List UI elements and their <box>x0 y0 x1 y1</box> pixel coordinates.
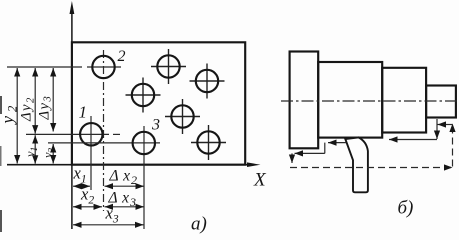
X axis arrowhead <box>247 162 261 167</box>
hole top-middle <box>157 55 179 77</box>
toolpath rapid dashed vertical <box>452 124 454 167</box>
dimension y2 <box>16 68 18 164</box>
hole 1 centerline horizontal extension <box>26 133 120 135</box>
hole 2 centerline horizontal extension <box>7 66 121 68</box>
hole top-middle crosshair <box>151 49 186 84</box>
hole 3 centerline horizontal extension <box>48 142 160 144</box>
shaft step 2 <box>318 62 382 138</box>
toolpath cut pass left arrow <box>328 142 346 144</box>
svg-text:1: 1 <box>79 103 88 122</box>
svg-text:б): б) <box>398 198 414 219</box>
dimension x1 <box>73 185 90 187</box>
hole center-left crosshair <box>126 78 161 113</box>
lathe tool <box>345 137 368 192</box>
dimension delta-y3 <box>52 68 54 132</box>
dimension x2 <box>73 206 102 208</box>
dimension y1 <box>34 135 36 164</box>
scan smudge left edge <box>0 96 2 114</box>
hole upper-right crosshair <box>190 64 225 99</box>
dimension delta-x3 <box>105 206 145 208</box>
dimension x3 <box>73 224 144 226</box>
toolpath approach horizontal <box>438 124 453 126</box>
hole 2 centerline vertical (dash-dot down to x2 dimension) <box>103 50 105 211</box>
hole bottom-right crosshair <box>191 125 226 160</box>
Y axis <box>71 12 73 229</box>
dimension y3 <box>52 144 54 164</box>
svg-text:2: 2 <box>118 48 126 65</box>
plate <box>72 42 245 164</box>
hole 3 centerline vertical extension <box>143 126 145 229</box>
hole center <box>171 105 193 127</box>
dimension delta-y2 <box>34 68 36 134</box>
hole 1 <box>80 123 102 145</box>
toolpath rapid dashed horizontal <box>290 167 453 169</box>
hole 3 <box>133 132 155 154</box>
Y axis arrowhead <box>70 1 75 14</box>
svg-text:X: X <box>253 170 267 191</box>
toolpath retract left arrow <box>295 152 325 154</box>
svg-text:3: 3 <box>151 117 160 134</box>
hole upper-right <box>196 70 218 92</box>
shaft centerline <box>281 100 459 102</box>
toolpath cut pass 2 <box>389 139 437 141</box>
hole 2 <box>92 56 114 78</box>
shaft flange <box>290 52 319 149</box>
dimension delta-x2 <box>105 185 145 187</box>
shaft step 4 <box>426 86 456 118</box>
shaft step 3 <box>382 68 426 133</box>
toolpath step-down segment <box>324 143 326 154</box>
hole 1 centerline vertical extension <box>90 116 92 190</box>
toolpath infeed vertical <box>436 119 438 139</box>
hole bottom-right <box>197 131 219 153</box>
toolpath down arrow at flange <box>291 153 293 163</box>
svg-text:а): а) <box>191 214 207 235</box>
hole center-left <box>132 84 154 106</box>
hole center crosshair <box>165 99 200 134</box>
X axis <box>7 164 254 166</box>
